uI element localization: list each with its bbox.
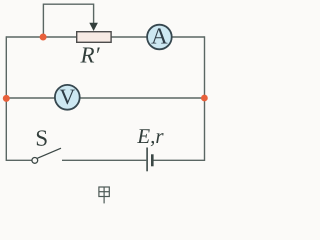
label S <box>37 130 47 145</box>
label E,r <box>137 129 164 146</box>
wire: top-right segment from ammeter to corner <box>172 36 205 38</box>
battery E,r: long plate <box>146 148 148 172</box>
wire: switch to battery segment <box>62 159 146 161</box>
wire: left side of main loop <box>5 36 7 161</box>
ammeter A <box>147 25 172 50</box>
switch S lever <box>38 148 62 158</box>
wire: top side of main loop <box>6 36 147 38</box>
wire: wiper tap loop above rheostat <box>43 4 93 37</box>
wiper arrowhead <box>89 23 98 31</box>
rheostat R' body <box>77 32 111 43</box>
switch S pivot <box>32 158 38 164</box>
wire: battery to bottom-right corner <box>153 159 205 161</box>
node: right junction of voltmeter branch <box>201 95 208 102</box>
battery E,r: short plate <box>151 154 154 166</box>
node: left junction of voltmeter branch <box>3 95 10 102</box>
caption 甲 (drawn) <box>99 187 109 203</box>
label R' <box>80 47 99 62</box>
node: junction of tap and top wire <box>40 34 47 41</box>
voltmeter V <box>55 85 80 110</box>
wire: bottom-left segment to switch <box>6 159 32 161</box>
wire: right side of main loop <box>204 36 206 161</box>
wire: middle voltmeter branch <box>6 97 204 99</box>
